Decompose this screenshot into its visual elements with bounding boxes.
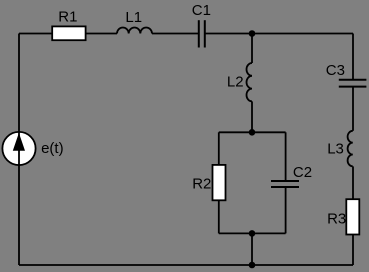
wire RC block bottom rail bbox=[219, 232, 286, 234]
svg-text:e(t): e(t) bbox=[41, 140, 64, 157]
wire top-left segment (corner to R1) bbox=[19, 33, 52, 35]
wire right side upper (corner to C3) bbox=[352, 34, 354, 80]
inductor L3 bbox=[348, 131, 353, 167]
svg-text:C1: C1 bbox=[192, 2, 211, 19]
inductor L2 bbox=[247, 63, 252, 101]
capacitor C3 bbox=[339, 79, 367, 81]
wire C1 to node A bbox=[206, 33, 253, 35]
wire RC block right branch upper bbox=[285, 132, 287, 181]
wire node A down to L2 bbox=[251, 34, 253, 64]
resistor R1 bbox=[52, 26, 85, 40]
wire RC block left branch upper bbox=[218, 132, 220, 165]
svg-text:C3: C3 bbox=[326, 62, 345, 79]
capacitor C2 bbox=[271, 180, 299, 182]
wire left side (top corner down through source to bottom corner) bbox=[18, 34, 20, 266]
capacitor C1 bbox=[198, 20, 200, 47]
svg-text:R3: R3 bbox=[327, 210, 346, 227]
wire bottom side bbox=[19, 264, 353, 266]
svg-text:C2: C2 bbox=[293, 164, 312, 181]
node C junction dot bbox=[249, 230, 256, 237]
wire RC block right branch lower bbox=[285, 187, 287, 233]
svg-text:L2: L2 bbox=[227, 74, 244, 91]
voltage source arrow bbox=[14, 134, 25, 150]
resistor R2 bbox=[213, 165, 226, 200]
wire C3 to L3 bbox=[352, 87, 354, 131]
wire L3 to R3 bbox=[352, 166, 354, 199]
inductor L1 bbox=[117, 27, 152, 33]
node D junction dot on bottom wire bbox=[249, 262, 256, 269]
node A junction dot bbox=[249, 30, 256, 37]
wire node C down to bottom wire bbox=[251, 233, 253, 265]
wire R1 to L1 bbox=[86, 33, 117, 35]
wire R3 to bottom-right corner bbox=[352, 235, 354, 266]
svg-text:R1: R1 bbox=[58, 8, 77, 25]
wire RC block top rail bbox=[219, 131, 286, 133]
wire L1 to C1 bbox=[152, 33, 198, 35]
resistor R3 bbox=[346, 199, 359, 234]
svg-text:L1: L1 bbox=[125, 9, 142, 26]
wire L2 to node B bbox=[251, 101, 253, 132]
wire RC block left branch lower bbox=[218, 200, 220, 233]
wire node A to top-right corner bbox=[252, 33, 353, 35]
voltage source e(t) circle bbox=[2, 132, 35, 165]
svg-text:L3: L3 bbox=[327, 140, 344, 157]
svg-text:R2: R2 bbox=[192, 176, 211, 193]
node B junction dot bbox=[249, 129, 256, 136]
